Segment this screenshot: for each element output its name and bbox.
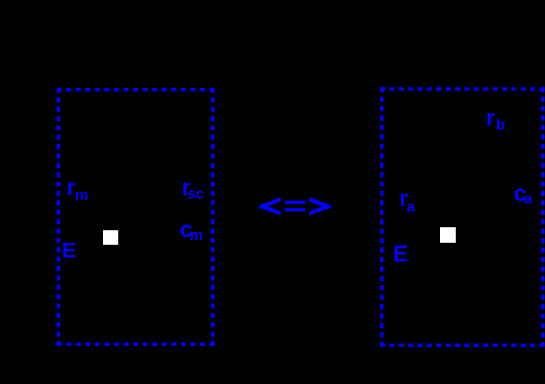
resistor label r_b <box>486 105 505 134</box>
resistor label r_a <box>399 185 415 216</box>
membrane boundary box right (dashed): top edge <box>380 87 545 91</box>
membrane boundary box left (dashed): bottom edge <box>57 343 215 347</box>
equivalence arrow: equals bottom bar <box>285 208 306 211</box>
capacitor label c_a <box>514 180 533 208</box>
svg-text:a: a <box>407 199 416 216</box>
svg-text:a: a <box>524 191 533 208</box>
equivalence arrow: right chevron <box>309 197 331 215</box>
battery body left (white square) <box>103 230 118 245</box>
equivalence arrow: equals top bar <box>285 201 306 204</box>
svg-text:E: E <box>393 241 408 267</box>
resistor label r_sc <box>182 174 204 203</box>
membrane boundary box right (dashed): right edge <box>541 87 545 347</box>
equivalence arrow: left chevron <box>259 197 280 215</box>
membrane boundary box right (dashed): left edge <box>380 87 384 347</box>
membrane boundary box left (dashed): left edge <box>57 88 61 346</box>
capacitor label c_m <box>180 216 203 244</box>
membrane boundary box left (dashed): right edge <box>211 88 215 346</box>
membrane boundary box left (dashed): top edge <box>57 88 215 92</box>
membrane boundary box right (dashed): bottom edge <box>380 343 545 347</box>
svg-text:b: b <box>496 116 505 133</box>
svg-text:sc: sc <box>188 186 205 203</box>
svg-text:m: m <box>75 187 88 204</box>
svg-text:E: E <box>62 239 76 263</box>
battery body right (white square) <box>440 227 456 243</box>
svg-text:r: r <box>486 105 495 131</box>
svg-text:m: m <box>190 227 203 244</box>
resistor label r_m <box>67 174 89 204</box>
